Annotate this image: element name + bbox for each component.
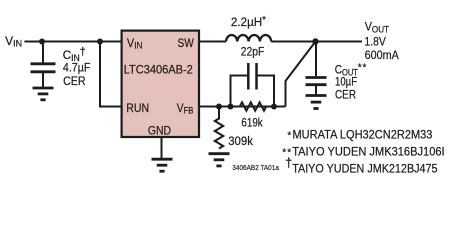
- pin label SW: [178, 37, 195, 50]
- pin label RUN: [126, 102, 149, 115]
- junction VFB / 309k: [216, 104, 222, 110]
- wire RUN feed: [100, 42, 122, 107]
- svg-text:22pF: 22pF: [241, 46, 265, 59]
- svg-text:VIN: VIN: [127, 38, 143, 51]
- svg-text:SW: SW: [178, 37, 195, 50]
- svg-text:LTC3406AB-2: LTC3406AB-2: [124, 64, 193, 76]
- ground (C_OUT): [306, 96, 327, 109]
- wire VFB: [199, 106, 286, 108]
- value C_IN label: [63, 46, 86, 63]
- svg-text:619k: 619k: [241, 117, 263, 130]
- svg-text:CER: CER: [335, 89, 356, 102]
- value 309k label: [228, 135, 253, 148]
- svg-text:*: *: [358, 63, 362, 74]
- resistor 309k: [215, 107, 223, 149]
- value 619k label: [241, 117, 263, 130]
- svg-text:10µF: 10µF: [335, 76, 357, 89]
- value 2.2uH label: [231, 15, 266, 29]
- svg-text:TAIYO YUDEN JMK316BJ106I: TAIYO YUDEN JMK316BJ106I: [292, 146, 444, 158]
- svg-text:VFB: VFB: [177, 102, 194, 116]
- pin label GND: [148, 125, 171, 138]
- wire SW to inductor: [199, 41, 226, 43]
- junction 22pF loop right: [271, 104, 277, 110]
- svg-text:2.2µH*: 2.2µH*: [231, 15, 266, 29]
- ground (C_IN): [33, 88, 54, 100]
- resistor 619k: [231, 102, 274, 110]
- svg-text:MURATA LQH32CN2R2M33: MURATA LQH32CN2R2M33: [293, 129, 433, 141]
- svg-text:*: *: [363, 63, 367, 74]
- junction at C_IN: [39, 39, 45, 45]
- IC name label: [124, 64, 193, 76]
- wire riser and diagonal to VOUT node: [286, 42, 316, 107]
- capacitor 22pF loop right: [257, 76, 274, 107]
- node V_OUT label: [365, 21, 390, 34]
- inductor L 2.2uH: [226, 35, 271, 41]
- value 22pF label: [241, 46, 265, 59]
- capacitor 22pF loop left: [231, 76, 248, 107]
- value C_OUT label: [335, 64, 358, 78]
- pin label VFB: [177, 102, 194, 116]
- svg-text:GND: GND: [148, 125, 171, 138]
- ground (IC GND): [152, 159, 173, 171]
- junction 22pF loop left: [228, 104, 234, 110]
- pin label VIN: [127, 38, 143, 51]
- capacitor C_IN lead top: [42, 42, 44, 63]
- svg-text:600mA: 600mA: [365, 49, 400, 62]
- svg-text:TAIYO YUDEN JMK212BJ475: TAIYO YUDEN JMK212BJ475: [292, 163, 437, 176]
- svg-text:CER: CER: [63, 75, 86, 88]
- capacitor 22pF plates: [247, 63, 250, 90]
- caption 3406AB2 TA01a: [232, 165, 279, 172]
- node V_IN label: [5, 34, 22, 49]
- junction VOUT node: [312, 38, 318, 44]
- capacitor C_IN plates: [31, 62, 56, 65]
- svg-text:†: †: [285, 155, 292, 170]
- svg-text:309k: 309k: [228, 135, 253, 148]
- svg-text:VOUT: VOUT: [365, 21, 390, 34]
- svg-text:RUN: RUN: [126, 102, 149, 115]
- capacitor C_OUT plates: [306, 76, 327, 79]
- ground (309k): [209, 154, 230, 166]
- svg-text:1.8V: 1.8V: [364, 36, 386, 49]
- svg-text:*: *: [287, 131, 291, 142]
- junction at RUN feed: [97, 39, 103, 45]
- IC U1 LTC3406AB-2 body: [122, 31, 199, 137]
- wire VIN rail: [24, 41, 122, 43]
- capacitor C_IN lead bottom: [42, 73, 44, 88]
- wire GND pin: [161, 137, 163, 159]
- svg-text:3406AB2 TA01a: 3406AB2 TA01a: [232, 165, 279, 172]
- capacitor C_OUT lead bottom: [315, 86, 317, 95]
- capacitor C_OUT lead top: [315, 42, 317, 77]
- svg-text:4.7µF: 4.7µF: [63, 62, 91, 75]
- wire inductor to VOUT: [271, 41, 362, 43]
